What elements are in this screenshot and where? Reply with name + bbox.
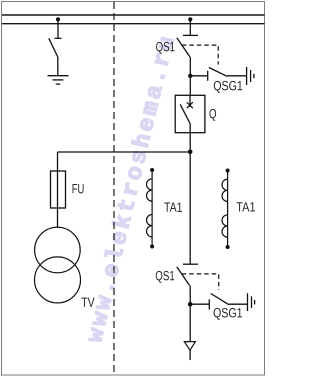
linkage dashed (bottom) xyxy=(182,274,219,290)
earthing switch QSG1 blade (bottom) xyxy=(211,294,228,304)
wire down to fuse xyxy=(57,152,59,228)
voltage transformer TV circle 1 xyxy=(35,227,81,273)
node: junction to TV branch xyxy=(188,150,193,155)
node A xyxy=(188,74,192,78)
ground (rotated, bottom) xyxy=(248,293,255,311)
svg-text:QSG1: QSG1 xyxy=(213,78,243,94)
wire xyxy=(189,350,191,360)
wire xyxy=(57,57,59,76)
contact tick xyxy=(183,34,198,36)
wire xyxy=(227,303,247,305)
dashed bay separator xyxy=(113,2,115,375)
contact tick QSG1 bottom xyxy=(208,299,210,309)
wire xyxy=(189,19,191,35)
wire to QSG1 xyxy=(190,75,207,77)
svg-text:TV: TV xyxy=(81,295,95,311)
busbar line 2 xyxy=(2,23,265,25)
earthing switch QSG1 blade (top) xyxy=(209,68,227,77)
node: busbar tap left xyxy=(56,17,60,21)
X contact xyxy=(187,102,193,108)
wire into box xyxy=(189,95,191,107)
svg-text:QS1: QS1 xyxy=(155,269,174,284)
svg-text:QSG1: QSG1 xyxy=(213,305,243,321)
voltage transformer TV circle 2 xyxy=(35,257,81,303)
busbar line 1 xyxy=(2,14,265,16)
svg-text:Q: Q xyxy=(209,107,217,122)
svg-text:FU: FU xyxy=(72,182,85,197)
breaker blade xyxy=(180,104,190,124)
wire xyxy=(57,19,59,38)
contact tick QS1 bottom xyxy=(183,263,198,265)
svg-text:QS1: QS1 xyxy=(156,40,175,55)
svg-text:TA1: TA1 xyxy=(164,200,183,216)
ground (rotated) xyxy=(247,67,254,85)
outgoing feeder arrow xyxy=(184,342,195,351)
linkage dashed (top) xyxy=(182,45,218,64)
wire xyxy=(189,57,191,95)
contact tick xyxy=(55,37,62,39)
main feeder wire xyxy=(189,133,191,265)
disconnector QS1 blade (bottom) xyxy=(177,267,190,286)
current transformer TA1 (right) xyxy=(222,171,228,248)
node: busbar tap right xyxy=(188,17,192,21)
wire to QSG1 bottom xyxy=(190,303,209,305)
circuit breaker Q box xyxy=(175,95,205,132)
contact tick QSG1 xyxy=(207,71,209,81)
wire xyxy=(189,124,191,133)
wire to TV branch xyxy=(58,151,191,153)
ground xyxy=(48,76,69,84)
wire xyxy=(189,285,191,341)
disconnector QS1 blade (top) xyxy=(177,38,190,57)
svg-text:TA1: TA1 xyxy=(236,199,255,214)
wire xyxy=(227,75,247,77)
earthing switch blade (left bay) xyxy=(49,38,58,57)
node B xyxy=(188,302,193,307)
current transformer TA1 (left) xyxy=(147,170,153,247)
fuse FU xyxy=(51,171,66,208)
